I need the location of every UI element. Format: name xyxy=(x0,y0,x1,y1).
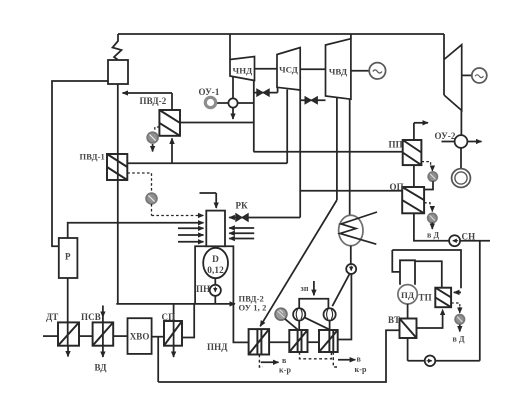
wire ChSD left downcomer xyxy=(286,90,288,164)
wire deaerator left fins xyxy=(178,227,204,229)
boiler drum xyxy=(108,60,128,84)
svg-text:ОУ-2: ОУ-2 xyxy=(435,131,456,141)
wire boiler blowdown to expander R xyxy=(52,81,108,246)
svg-text:ВТ: ВТ xyxy=(388,315,400,325)
wire PD top to TP xyxy=(415,261,442,288)
pump TP drain xyxy=(451,303,460,306)
svg-text:к-р: к-р xyxy=(279,366,291,375)
turbine ChND xyxy=(230,57,255,81)
wire shaft ChND-ChSD xyxy=(254,68,277,70)
svg-text:ОУ-1: ОУ-1 xyxy=(199,87,220,97)
wire PD to VT xyxy=(407,304,409,319)
wire SP to riser xyxy=(182,304,194,338)
pump PP drain xyxy=(421,162,430,166)
wire steam to drive turbine xyxy=(443,34,445,95)
wire ChVD extraction 2 to heat exchanger xyxy=(349,99,351,216)
wire pump to ejector E2 xyxy=(332,274,349,306)
pump OP drain xyxy=(424,203,430,205)
heater SP xyxy=(164,321,182,346)
wire shaft ChSD-ChVD xyxy=(300,68,325,70)
wire drain dashed into deaerator xyxy=(151,204,153,216)
deaerator column xyxy=(206,211,225,247)
svg-text:D: D xyxy=(212,255,219,265)
wire feed from PVD-2 into boiler line xyxy=(123,92,173,94)
svg-text:ПВД-1: ПВД-1 xyxy=(80,152,105,162)
wire R to DT vertical with arrow xyxy=(67,278,69,346)
wire deaerator right fins xyxy=(229,227,254,229)
wire HVO to SP xyxy=(152,336,164,338)
wire SN discharge xyxy=(460,240,490,242)
wire deaerator frame right to PND-1 xyxy=(225,246,249,342)
wire HX to pump xyxy=(350,246,352,264)
wire node to ChND downcomer xyxy=(238,102,254,104)
wire extraction line to PP xyxy=(254,151,403,153)
node OU-2 xyxy=(455,135,468,148)
wire PP to OP xyxy=(413,165,415,187)
wire bottom pump line xyxy=(408,360,480,362)
wire PSV vertical xyxy=(102,306,104,318)
svg-text:ХВО: ХВО xyxy=(130,332,150,342)
tank D 0,12 xyxy=(203,248,228,278)
svg-text:в: в xyxy=(282,356,287,365)
svg-text:ПД: ПД xyxy=(401,290,414,300)
svg-text:0,12: 0,12 xyxy=(207,266,224,276)
heater OP xyxy=(402,187,424,213)
wire extraction line to OP xyxy=(300,190,402,192)
node OU-1 mixer xyxy=(228,98,237,107)
wire ChND right downcomer xyxy=(253,81,255,152)
wire node injection arrow xyxy=(232,108,234,119)
wire PVD-2 heating steam line xyxy=(180,122,254,124)
svg-text:ПВД-2: ПВД-2 xyxy=(140,96,167,106)
wire PD feed line xyxy=(392,250,461,288)
svg-text:СН: СН xyxy=(462,232,476,242)
svg-text:ПН: ПН xyxy=(196,284,210,294)
wire feed branch into PVD-2 xyxy=(171,138,173,163)
svg-text:РК: РК xyxy=(236,201,249,211)
wire PP secondary steam out xyxy=(413,123,415,140)
spray unit OU-1 xyxy=(205,97,215,107)
wire gland heater to PND-2 xyxy=(285,319,298,330)
wire SN to bottom pump riser xyxy=(479,241,481,361)
wire RK line into deaerator xyxy=(248,217,300,219)
wire crossover ChSD-ChVD xyxy=(300,99,325,101)
wire PVD-1 feed line to junction xyxy=(127,162,287,164)
column PD xyxy=(400,260,415,285)
heater PVD-2 xyxy=(159,110,180,136)
wire big diagonal extraction to PND-1 xyxy=(260,200,337,326)
wire PND-1 to PND-2 xyxy=(269,341,289,343)
wire E1 to PND-2 xyxy=(298,321,300,331)
wire PSV to HVO xyxy=(113,335,127,337)
svg-text:ОП: ОП xyxy=(390,182,404,192)
svg-text:ЧСД: ЧСД xyxy=(279,65,298,75)
wire VT down to bottom pump line xyxy=(407,338,409,361)
wire steam drop to ChND xyxy=(229,34,231,60)
wire feedwater line boiler to PVD-1 and down xyxy=(117,84,119,304)
generator G1 xyxy=(369,63,385,79)
svg-text:ПНД: ПНД xyxy=(207,342,228,352)
wire PND-2 to PND-3 xyxy=(308,341,320,343)
wire main steam header xyxy=(118,33,444,35)
wire VT to TP xyxy=(417,315,443,328)
expander R xyxy=(59,238,78,278)
heater VT xyxy=(400,319,417,339)
wire OU-2 drop from drive turbine xyxy=(460,111,462,136)
svg-text:ТП: ТП xyxy=(419,293,432,303)
drive turbine xyxy=(444,45,462,111)
turbine ChSD xyxy=(277,48,300,91)
wire deaerator inlet top xyxy=(200,192,217,194)
wire shaft drive turbine-generator xyxy=(462,74,472,76)
heater PSV xyxy=(93,322,114,345)
unit HVO xyxy=(128,318,152,354)
wire SP vertical xyxy=(173,304,175,346)
svg-text:ПП: ПП xyxy=(389,140,403,150)
heater PVD-1 xyxy=(107,154,127,180)
svg-text:в Д: в Д xyxy=(427,231,440,240)
wire raw water inlet xyxy=(43,335,58,337)
wire HVO down branch xyxy=(157,337,159,382)
svg-text:СП: СП xyxy=(162,312,176,322)
wire ChSD right downcomer to RK xyxy=(299,90,301,218)
wire boiler riser with break symbol xyxy=(113,34,122,60)
wire expander R steam to deaerator xyxy=(68,223,185,238)
wire PND-1 drain to condenser xyxy=(259,355,263,368)
svg-text:ОУ 1, 2: ОУ 1, 2 xyxy=(239,303,267,313)
svg-text:Р: Р xyxy=(65,252,71,262)
wire DT to PSV xyxy=(79,335,93,337)
heater TP xyxy=(435,288,451,308)
heater PND-2 xyxy=(289,330,307,352)
wire PND-2 PND-3 drain dashed xyxy=(300,352,332,359)
valve RK xyxy=(236,214,248,222)
heat exchanger with coil xyxy=(339,215,363,245)
svg-text:ЧВД: ЧВД xyxy=(329,67,347,77)
wire PN discharge header xyxy=(116,303,235,305)
wire deaerator frame left xyxy=(195,246,206,304)
turbine ChVD xyxy=(326,39,351,99)
svg-text:ЧНД: ЧНД xyxy=(233,66,253,76)
gland heater hatched circle xyxy=(275,308,287,320)
heater PND-3 xyxy=(319,330,338,352)
ejector cooler E1 xyxy=(293,308,305,320)
wire bottom condensate main xyxy=(158,330,399,382)
wire E2 to PND-3 xyxy=(329,321,331,331)
wire OU-1 gray circle to node xyxy=(217,102,228,104)
valve crossover 1 xyxy=(257,89,269,96)
svg-text:ПСВ: ПСВ xyxy=(81,312,101,322)
pump bottom circulation xyxy=(425,356,436,367)
pump HX condensate xyxy=(346,264,356,274)
svg-text:к-р: к-р xyxy=(355,365,367,374)
wire ChND exhaust down xyxy=(232,76,234,98)
wire OU-2 to condenser xyxy=(460,148,462,169)
heater PND-1 xyxy=(249,329,270,354)
wire pump to PND-3 shell xyxy=(338,274,352,340)
wire shaft ChVD-generator xyxy=(351,70,369,72)
wire crossover ChND-ChSD xyxy=(254,88,278,93)
svg-text:ДТ: ДТ xyxy=(46,312,58,322)
pump PVD-2 drain xyxy=(155,127,160,132)
pump PVD-1 drain xyxy=(127,173,151,193)
heater PP xyxy=(403,140,422,165)
wire ChVD extraction 1 vertical xyxy=(336,98,338,200)
svg-text:в Д: в Д xyxy=(453,335,466,344)
wire header stub to ChVD xyxy=(350,34,352,39)
vessel PD circle xyxy=(398,285,417,304)
wire OP to SN line xyxy=(414,213,449,240)
condenser double circle xyxy=(452,169,471,188)
wire E1 to PND-3 diagonal xyxy=(304,317,330,330)
wire ejector bracket xyxy=(299,299,328,309)
valve crossover 2 xyxy=(305,97,317,104)
generator G2 xyxy=(472,68,487,83)
svg-text:в: в xyxy=(357,355,362,364)
svg-text:зп: зп xyxy=(301,284,309,293)
wire ZP arrow xyxy=(313,281,315,295)
ejector cooler E2 xyxy=(324,308,336,320)
svg-text:ВД: ВД xyxy=(95,363,108,373)
heater DT xyxy=(58,322,79,345)
pump PN xyxy=(214,278,216,285)
pump SN xyxy=(449,235,460,246)
